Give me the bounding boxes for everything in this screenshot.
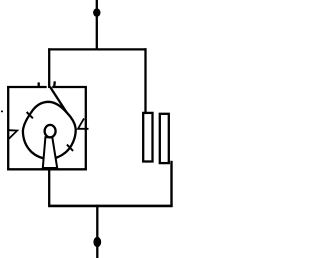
terminal wire bottom — [96, 205, 98, 258]
needle pointer diagonal — [50, 87, 67, 113]
terminal dot top — [93, 8, 100, 16]
wire top horizontal — [48, 48, 146, 50]
wire meter to bottom — [48, 169, 50, 207]
needle pivot circle — [45, 125, 56, 137]
wire right vertical (to capacitor) — [144, 48, 146, 113]
wire left vertical (to meter) — [48, 48, 50, 88]
scale tick upper-left — [27, 112, 33, 118]
galvanometer box — [8, 87, 86, 169]
left stop arrow on box edge — [9, 130, 17, 138]
terminal wire top — [96, 0, 98, 50]
wire capacitor to bottom — [170, 161, 172, 207]
capacitor left plate — [143, 113, 152, 162]
stray mark left edge — [1, 110, 3, 112]
right stop arrow on box edge — [78, 118, 89, 128]
tick right on box top edge — [53, 81, 56, 87]
tick left on box top edge — [38, 82, 40, 87]
wire bottom horizontal — [48, 205, 172, 208]
capacitor right plate — [160, 114, 169, 163]
terminal dot bottom — [93, 237, 101, 247]
meter dial circle — [23, 102, 76, 159]
needle wedge — [43, 137, 57, 168]
scale tick lower-right — [67, 145, 73, 151]
